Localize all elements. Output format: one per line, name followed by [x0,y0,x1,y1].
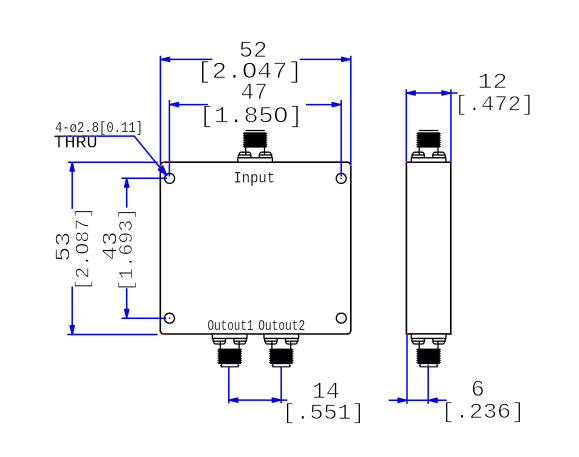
dim 43 dimension line [126,179,128,208]
dim 53 dimension line [71,163,73,209]
dim 47 extension line right [340,100,342,177]
dim 43 arrow top [125,179,129,188]
dim 52 arrow right [342,57,351,61]
svg-text:Outout2: Outout2 [258,318,305,335]
dim 6 dimension line [389,399,447,401]
output1 SMA connector (front bottom left) [212,334,247,367]
hole note leader line [55,136,165,173]
dim 43 extension line bottom [122,317,167,319]
dim 52 dimension line [161,58,212,60]
svg-text:47: 47 [241,80,268,106]
dim 6 extension line right (connector centerline) [427,366,429,404]
dim 53 extension line top [68,161,157,163]
defpoint dots (red) [160,161,429,366]
svg-text:[.551]: [.551] [282,401,365,426]
dim 53 arrow top [70,163,74,172]
dim 53 extension line bottom [67,334,157,336]
svg-text:Input: Input [234,170,276,188]
dim 6 extension line left [406,335,408,404]
dim 14 extension line right (output2 centerline) [280,366,282,403]
svg-text:12: 12 [478,70,508,95]
svg-text:6: 6 [471,377,485,403]
mounting hole top-left [165,173,175,183]
svg-text:Outout1: Outout1 [208,318,254,335]
dim 14 arrow right [272,398,281,402]
svg-text:[1.85O]: [1.85O] [199,103,303,129]
leader arrowhead [158,166,167,176]
dim 6 arrow left (outside) [398,398,407,402]
dim 52 extension line left [159,56,161,164]
dim 52 arrow left [161,57,170,61]
side top SMA connector [411,131,446,163]
output2 SMA connector (front bottom right) [264,334,299,367]
dim 12 extension line right [450,89,452,162]
input SMA connector (front top) [238,131,273,163]
dim 43 arrow bottom [125,310,129,319]
dim 53 arrow bottom [70,326,74,335]
svg-text:THRU: THRU [54,134,98,154]
dim 47 arrow left [170,103,179,107]
dim 14 arrow left [229,398,238,402]
svg-text:[1.693]: [1.693] [116,208,138,292]
svg-text:[2.O87]: [2.O87] [73,207,95,291]
svg-text:[.236]: [.236] [441,400,525,425]
dim 52 extension line right [350,56,352,165]
mounting hole top-right [336,173,346,183]
side body outline [406,162,450,334]
dim 12 dimension line [406,92,457,94]
dim 12 arrow right [442,91,451,95]
dim 12 extension line left [405,89,407,162]
dim 43 extension line top [122,177,168,179]
mounting hole bottom-right [336,313,346,323]
dim 47 dimension line [170,104,208,106]
side bottom SMA connector [411,334,446,367]
dim 14 dimension line [229,399,287,401]
dim 47 arrow right [332,103,341,107]
dim 12 arrow left [407,91,416,95]
body outline [160,162,350,334]
mounting hole bottom-left [165,313,175,323]
dim 47 extension line left [168,100,170,177]
dim 6 arrow right (outside) [429,398,438,402]
svg-text:[.472]: [.472] [454,93,534,118]
dim 14 extension line left (output1 centerline) [228,366,230,403]
